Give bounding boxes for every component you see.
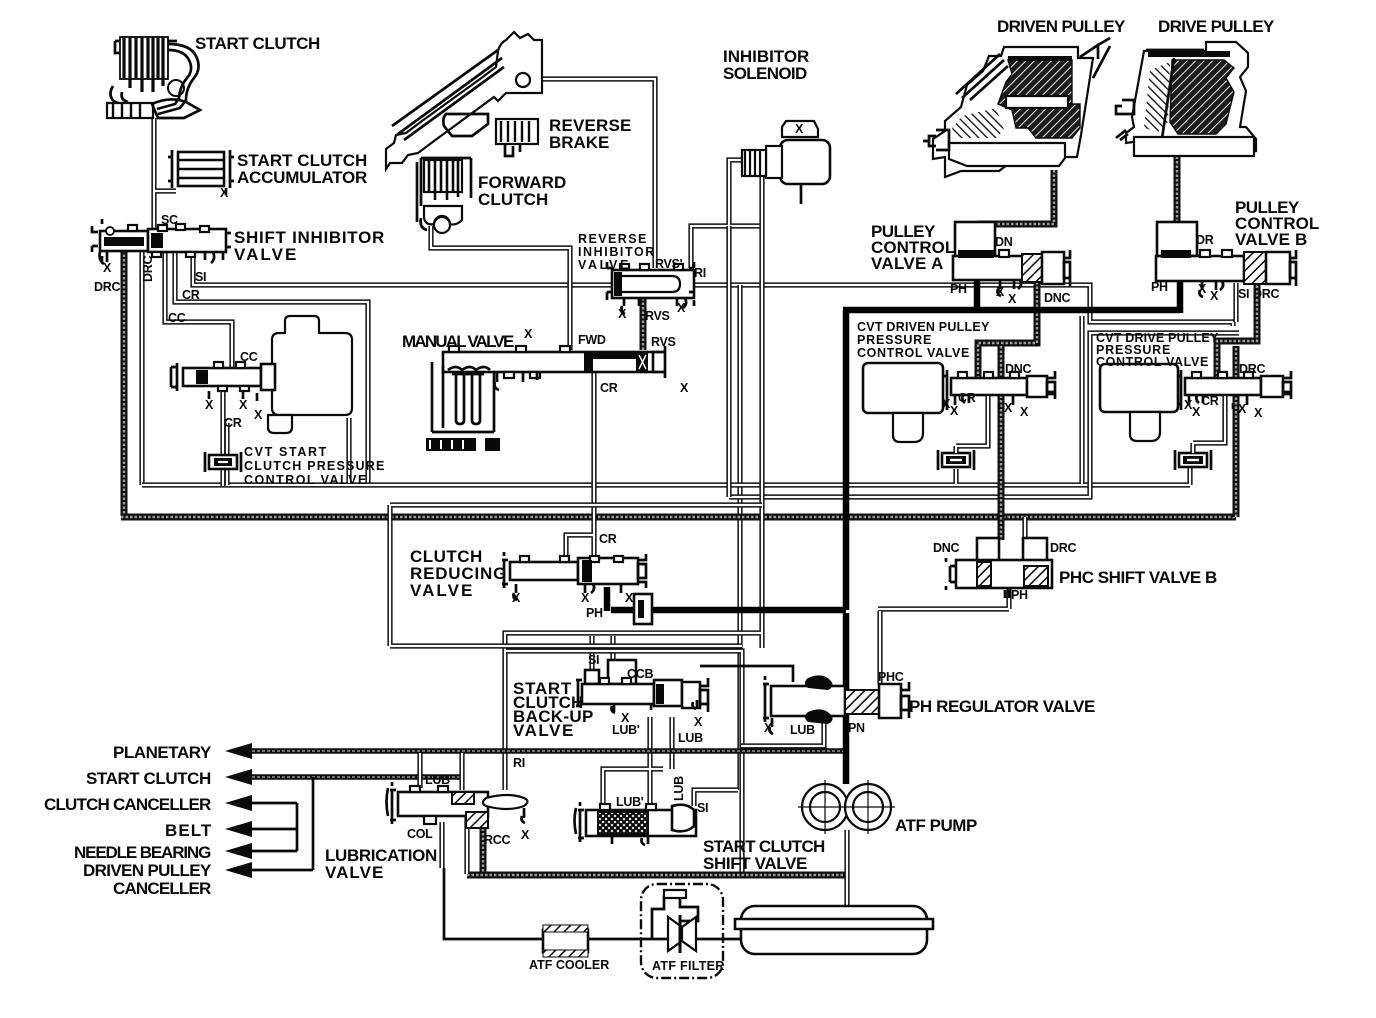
- wire DR from drive pulley: [1172, 152, 1177, 224]
- wire CCB drop: [610, 636, 615, 662]
- wire SI backup valve drop: [589, 636, 594, 681]
- wire PH stub valve B: [1177, 281, 1184, 313]
- wire COL to ATF cooler: [439, 822, 444, 868]
- wire reverse brake to reverse inhibitor valve: [541, 79, 655, 268]
- arrow driven pulley canceller: [225, 862, 252, 878]
- atf pump: [798, 780, 895, 834]
- wire box clutch reducing valve: [390, 505, 762, 646]
- svg-text:CONTROL VALVE: CONTROL VALVE: [857, 346, 969, 360]
- svg-text:FWD: FWD: [578, 333, 606, 347]
- arrow start clutch: [225, 769, 252, 785]
- wire DN from driven pulley: [978, 170, 1054, 224]
- svg-text:CLUTCH PRESSURE: CLUTCH PRESSURE: [244, 459, 384, 473]
- svg-text:LUB: LUB: [678, 731, 703, 745]
- svg-text:CC: CC: [168, 311, 186, 325]
- wire shift inhibitor second port down: [139, 250, 144, 485]
- svg-text:CR: CR: [958, 391, 976, 405]
- svg-text:CCB: CCB: [627, 667, 653, 681]
- svg-text:VALVE: VALVE: [513, 721, 573, 740]
- svg-text:PHC: PHC: [878, 670, 904, 684]
- wire CVT driven box right border: [1079, 316, 1084, 484]
- wire FWD: forward clutch to manual valve: [431, 226, 570, 350]
- arrow needle bearing: [225, 843, 252, 859]
- wire SI branch down to start clutch shift valve: [737, 285, 742, 790]
- svg-text:X: X: [996, 285, 1005, 299]
- svg-text:RCC: RCC: [484, 833, 510, 847]
- CVT drive pulley pressure control valve: [1100, 364, 1291, 441]
- svg-text:SI: SI: [697, 801, 708, 815]
- svg-text:DRIVEN PULLEY: DRIVEN PULLEY: [997, 17, 1126, 36]
- start clutch assembly: [107, 37, 200, 118]
- svg-text:VALVE A: VALVE A: [871, 254, 943, 273]
- wire L1 CR bus: [142, 418, 1190, 485]
- wire start clutch feed line: [252, 774, 462, 780]
- damper drive: [1175, 396, 1225, 470]
- arrow clutch canceller: [225, 795, 252, 811]
- wire PH stub valve A: [974, 281, 981, 312]
- svg-text:NEEDLE BEARING: NEEDLE BEARING: [74, 843, 211, 862]
- svg-text:ATF FILTER: ATF FILTER: [652, 959, 724, 973]
- svg-text:START CLUTCH: START CLUTCH: [195, 34, 320, 53]
- damper driven: [938, 396, 988, 470]
- wire RVS: reverse inhibitor to manual valve: [640, 298, 647, 350]
- svg-text:PN: PN: [848, 721, 865, 735]
- wire pump suction to pan: [844, 830, 849, 908]
- svg-text:X: X: [254, 408, 263, 422]
- svg-text:X: X: [524, 327, 533, 341]
- pulley control valve B: [1156, 222, 1296, 297]
- svg-text:START CLUTCH: START CLUTCH: [86, 769, 211, 788]
- svg-text:CONTROL VALVE: CONTROL VALVE: [1096, 355, 1208, 369]
- inhibitor solenoid: [742, 121, 830, 184]
- svg-text:PH: PH: [586, 606, 603, 620]
- svg-text:CR: CR: [182, 288, 200, 302]
- svg-text:DNC: DNC: [1044, 291, 1070, 305]
- wire CR cvt start clutch spool to damper: [220, 392, 225, 486]
- wire SI: shift inhibitor to pulley control valve B: [193, 250, 1233, 326]
- driven pulley: [923, 38, 1110, 177]
- svg-text:X: X: [1210, 289, 1219, 303]
- shift inhibitor valve: [92, 219, 231, 264]
- wire L3 bus: [729, 333, 1239, 497]
- svg-text:X: X: [512, 591, 521, 605]
- svg-text:CR: CR: [600, 381, 618, 395]
- svg-text:X: X: [694, 715, 703, 729]
- svg-text:X: X: [1020, 405, 1029, 419]
- svg-text:LUB': LUB': [425, 773, 453, 787]
- wire RCC drop: [480, 824, 487, 872]
- wire inhibitor solenoid tail: [800, 183, 803, 204]
- svg-text:RVS': RVS': [655, 257, 683, 271]
- svg-text:LUB: LUB: [790, 723, 815, 737]
- svg-text:VALVE: VALVE: [234, 245, 296, 264]
- svg-text:CVT START: CVT START: [244, 445, 327, 459]
- forward clutch assembly: [417, 158, 471, 233]
- wire lubrication box left: [467, 801, 508, 874]
- svg-text:X: X: [1198, 282, 1207, 296]
- svg-text:X: X: [677, 301, 686, 315]
- svg-text:DRC: DRC: [1050, 541, 1076, 555]
- wire SI stub valve B: [1233, 283, 1238, 322]
- svg-text:VALVE: VALVE: [410, 581, 472, 600]
- clutch reducing valve: [502, 552, 646, 600]
- wire PH stub clutch reducing: [604, 587, 611, 611]
- manual valve: [443, 346, 665, 390]
- start clutch back-up valve: [576, 660, 708, 713]
- wire PH thick main: [611, 310, 1180, 784]
- svg-text:CR: CR: [1201, 394, 1219, 408]
- svg-text:X: X: [1004, 401, 1013, 415]
- wire suction line cooler filter pan: [444, 868, 744, 939]
- atf pan strainer: [735, 906, 933, 954]
- wire CR: shift inhibitor to L1: [175, 250, 368, 483]
- svg-text:DNC: DNC: [1005, 362, 1031, 376]
- svg-text:PH REGULATOR VALVE: PH REGULATOR VALVE: [909, 697, 1095, 716]
- svg-text:X: X: [239, 398, 248, 412]
- wire DRC valve B jog: [1217, 281, 1257, 377]
- svg-text:REVERSE: REVERSE: [578, 232, 646, 246]
- svg-text:CANCELLER: CANCELLER: [113, 879, 211, 898]
- svg-text:BELT: BELT: [165, 821, 212, 840]
- arrow planetary: [225, 743, 252, 759]
- wire DNC long: [998, 346, 1005, 540]
- svg-text:CR: CR: [224, 416, 242, 430]
- wire CVT start clutch box left border: [224, 423, 229, 485]
- svg-text:X: X: [625, 591, 634, 605]
- svg-text:X: X: [1238, 402, 1247, 416]
- CVT driven pulley pressure control valve: [863, 363, 1055, 442]
- manual valve detent plate: [432, 362, 494, 432]
- svg-text:PHC SHIFT VALVE B: PHC SHIFT VALVE B: [1059, 568, 1217, 587]
- svg-text:COL: COL: [407, 827, 433, 841]
- svg-text:DRIVEN PULLEY: DRIVEN PULLEY: [83, 861, 212, 880]
- svg-text:SI: SI: [195, 270, 206, 284]
- svg-text:CONTROL VALVE: CONTROL VALVE: [244, 473, 366, 487]
- svg-text:CLUTCH: CLUTCH: [478, 190, 548, 209]
- wire CC: shift inhibitor to CVT start clutch control valve: [165, 250, 232, 371]
- lubrication valve: [387, 782, 528, 828]
- manual valve position labels: [426, 438, 500, 451]
- svg-text:DN: DN: [995, 235, 1013, 249]
- svg-text:LUB': LUB': [612, 723, 640, 737]
- svg-text:LUB: LUB: [672, 776, 686, 801]
- svg-text:RI: RI: [694, 266, 706, 280]
- reverse inhibitor valve: [607, 262, 694, 314]
- svg-text:SHIFT VALVE: SHIFT VALVE: [703, 854, 807, 873]
- svg-text:X: X: [1254, 406, 1263, 420]
- svg-text:DRC: DRC: [94, 280, 120, 294]
- svg-text:X: X: [795, 122, 804, 136]
- atf filter: [641, 884, 723, 978]
- wire LUB' loop above start clutch shift valve: [603, 717, 672, 810]
- svg-text:PH: PH: [1011, 588, 1028, 602]
- wire LUB regulator valve: [741, 720, 824, 746]
- svg-text:X: X: [521, 828, 530, 842]
- reverse brake assembly: [386, 32, 542, 169]
- wire DRC riser to drive valve: [1233, 346, 1240, 517]
- wire DRC phc shift valve riser: [1022, 517, 1027, 540]
- pulley control valve A: [953, 222, 1070, 296]
- PH regulator valve: [763, 675, 909, 734]
- svg-text:X: X: [205, 398, 214, 412]
- atf cooler: [543, 925, 588, 957]
- svg-text:RI: RI: [513, 756, 525, 770]
- svg-text:DRIVE PULLEY: DRIVE PULLEY: [1158, 17, 1275, 36]
- svg-text:DRC: DRC: [1239, 362, 1265, 376]
- wire PHC regulator to phc shift valve: [878, 589, 1009, 684]
- wire arrow trunk 2: [252, 803, 297, 851]
- svg-text:X: X: [103, 261, 112, 275]
- wire lub regulator feed line: [700, 666, 793, 682]
- wire box start clutch back-up valve: [506, 651, 742, 874]
- orifice on PH line: [634, 594, 652, 624]
- wire RI: inhibitor solenoid to reverse inhibitor valve: [691, 160, 762, 268]
- wire L2 DRC bus: [121, 514, 1236, 521]
- svg-text:X: X: [950, 404, 959, 418]
- svg-text:DNC: DNC: [933, 541, 959, 555]
- wire solenoid line down to L3: [726, 226, 731, 497]
- drive pulley: [1116, 42, 1256, 156]
- CVT start clutch pressure control valve solenoid: [268, 316, 352, 433]
- wire planetary main: [252, 748, 843, 754]
- wire DNC: pulley control valve A to phc shift valve: [978, 282, 1037, 377]
- start clutch accumulator: [168, 150, 234, 195]
- svg-text:PRESSURE: PRESSURE: [857, 333, 931, 347]
- svg-text:ATF COOLER: ATF COOLER: [529, 958, 609, 972]
- svg-text:X: X: [618, 307, 627, 321]
- svg-text:SI: SI: [1238, 287, 1249, 301]
- svg-text:PLANETARY: PLANETARY: [113, 743, 212, 762]
- start clutch shift valve: [575, 802, 697, 845]
- svg-text:X: X: [1008, 292, 1017, 306]
- svg-text:X: X: [1192, 405, 1201, 419]
- svg-text:SI: SI: [588, 653, 599, 667]
- arrow belt: [225, 821, 252, 837]
- CVT start clutch pressure control valve spool: [171, 362, 275, 401]
- wire SI start clutch shift valve: [694, 790, 738, 806]
- svg-text:ATF PUMP: ATF PUMP: [895, 816, 977, 835]
- wire arrow trunk 1: [252, 777, 313, 870]
- svg-text:VALVE: VALVE: [325, 863, 383, 882]
- svg-text:DRC: DRC: [1253, 287, 1279, 301]
- svg-text:X: X: [220, 186, 229, 200]
- damper CVT start clutch: [205, 452, 241, 472]
- svg-text:LUB': LUB': [616, 795, 644, 809]
- svg-text:X: X: [764, 721, 773, 735]
- wire RCC bottom bus to pump: [467, 872, 845, 879]
- svg-text:ACCUMULATOR: ACCUMULATOR: [237, 168, 367, 187]
- wire SC: start clutch to shift inhibitor valve: [154, 118, 176, 232]
- wire RI long vertical: [505, 172, 762, 790]
- svg-text:BRAKE: BRAKE: [549, 133, 609, 152]
- svg-text:CVT DRIVEN PULLEY: CVT DRIVEN PULLEY: [857, 320, 990, 334]
- svg-text:CLUTCH CANCELLER: CLUTCH CANCELLER: [44, 795, 211, 814]
- svg-text:DRC: DRC: [141, 256, 155, 282]
- svg-text:X: X: [680, 381, 689, 395]
- svg-text:X: X: [581, 591, 590, 605]
- svg-text:DR: DR: [1196, 233, 1214, 247]
- svg-text:RVS: RVS: [651, 335, 676, 349]
- svg-text:INHIBITOR: INHIBITOR: [578, 245, 654, 259]
- wire DRC: shift inhibitor down: [121, 250, 128, 516]
- svg-text:PH: PH: [1151, 280, 1168, 294]
- wire CR from manual valve to clutch reducing valve: [566, 372, 594, 558]
- svg-text:CC: CC: [240, 350, 258, 364]
- svg-text:VALVE B: VALVE B: [1235, 230, 1307, 249]
- svg-text:PH: PH: [950, 282, 967, 296]
- svg-text:RVS: RVS: [645, 309, 670, 323]
- phc shift valve B: [946, 538, 1052, 598]
- svg-text:SOLENOID: SOLENOID: [723, 64, 807, 83]
- svg-text:SC: SC: [161, 213, 178, 227]
- svg-text:CR: CR: [599, 532, 617, 546]
- wire lub valve riser: [417, 753, 422, 788]
- svg-text:MANUAL VALVE: MANUAL VALVE: [402, 332, 514, 351]
